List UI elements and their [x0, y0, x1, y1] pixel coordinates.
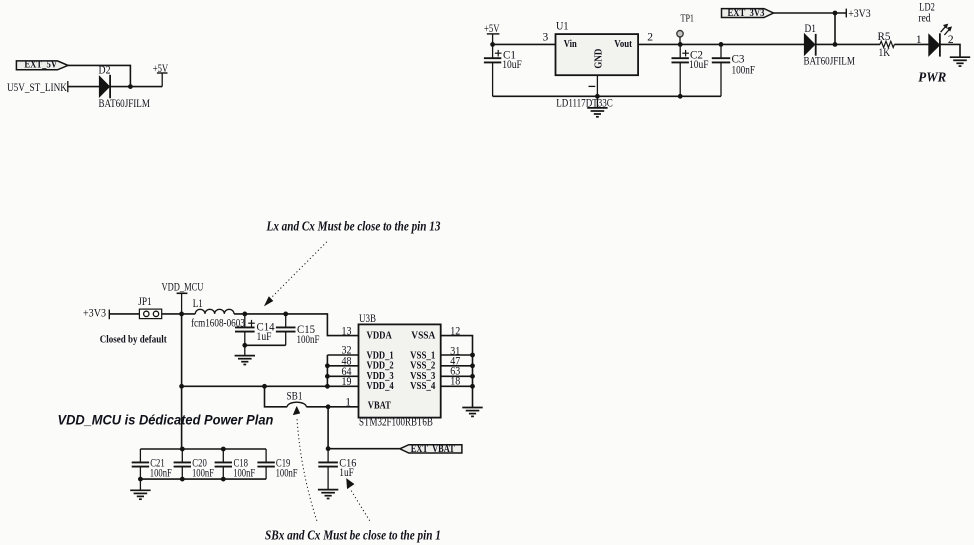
junction node VBAT net	[326, 404, 331, 409]
wire R5 to LD2	[894, 43, 929, 45]
junction node pin18	[470, 384, 475, 389]
capacitor C1	[492, 44, 494, 58]
svg-text:1uF: 1uF	[257, 330, 272, 343]
svg-text:BAT60JFILM: BAT60JFILM	[99, 98, 151, 110]
capacitor C19	[265, 449, 267, 462]
wire SB1 branch down	[265, 386, 288, 407]
wire VDD bus vertical	[326, 355, 328, 386]
capacitor C3	[720, 44, 722, 58]
svg-text:U3B: U3B	[359, 313, 376, 325]
wire EXT_5V to D2 cathode net	[68, 65, 130, 86]
junction node C20 gnd	[180, 477, 185, 482]
svg-text:10uF: 10uF	[689, 58, 708, 71]
svg-text:VSSA: VSSA	[411, 330, 436, 342]
wire D2 to +5V	[110, 86, 162, 88]
ground at U3B VSS	[462, 407, 482, 409]
wire VSS pin 12	[441, 336, 473, 408]
svg-text:100nF: 100nF	[150, 467, 172, 480]
wire JP1 to L1	[162, 313, 196, 315]
capacitor C16	[327, 449, 329, 463]
junction node C20 top	[180, 447, 185, 452]
svg-text:100nF: 100nF	[732, 63, 756, 76]
junction node 3V3 net top	[833, 11, 838, 16]
svg-text:BAT60JFILM: BAT60JFILM	[804, 55, 856, 67]
resistor R5	[816, 43, 880, 45]
wire U5V_ST_LINK to D2 anode	[68, 86, 100, 88]
svg-text:L1: L1	[193, 298, 203, 310]
svg-text:SBx and Cx Must be close to th: SBx and Cx Must be close to the pin 1	[265, 527, 441, 542]
capacitor C21	[139, 449, 141, 462]
junction node C1/+5V	[490, 42, 495, 47]
wire pin 31	[441, 354, 473, 356]
LED LD2	[929, 34, 940, 55]
junction node pin47	[470, 363, 475, 368]
diode D1	[804, 34, 814, 55]
svg-text:VDDA: VDDA	[367, 330, 393, 342]
junction node C18 gnd	[221, 477, 226, 482]
svg-text:100nF: 100nF	[276, 467, 298, 480]
svg-text:EXT_5V: EXT_5V	[24, 60, 57, 71]
svg-text:VSS_4: VSS_4	[410, 380, 435, 392]
ground under C14	[244, 345, 246, 355]
svg-text:JP1: JP1	[138, 296, 151, 308]
wire gnd rail under U1	[493, 95, 721, 97]
junction node JP1 drop on pin19 rail	[179, 384, 184, 389]
wire U1 pin2 to D1 anode	[638, 43, 805, 45]
svg-text:STM32F100RBT6B: STM32F100RBT6B	[359, 417, 433, 429]
capacitor C14	[244, 314, 246, 328]
junction node C2 gnd	[678, 94, 683, 99]
junction node C15 top	[283, 312, 288, 317]
svg-text:D1: D1	[805, 22, 816, 35]
svg-text:EXT_VBAT: EXT_VBAT	[411, 443, 455, 454]
capacitor C20	[181, 449, 183, 462]
wire SB1 to VBAT pin1	[306, 406, 358, 408]
wire pin 47	[441, 365, 473, 367]
svg-text:R5: R5	[878, 30, 891, 43]
svg-text:VDD_MCU is Dédicated Power Pla: VDD_MCU is Dédicated Power Plan	[58, 412, 274, 428]
wire VDD_MCU vertical drop	[181, 314, 183, 449]
ground under C16	[318, 489, 338, 491]
svg-text:SB1: SB1	[287, 391, 303, 403]
svg-text:1uF: 1uF	[339, 466, 354, 479]
svg-text:VBAT: VBAT	[368, 399, 391, 411]
wire EXT_3V3 to +3V3	[774, 12, 847, 14]
svg-text:red: red	[918, 12, 931, 25]
svg-text:2: 2	[647, 32, 653, 44]
svg-text:EXT_3V3: EXT_3V3	[728, 8, 765, 19]
svg-text:3: 3	[543, 32, 549, 44]
ground at LD2	[950, 56, 970, 58]
svg-text:100nF: 100nF	[233, 467, 255, 480]
svg-text:100nF: 100nF	[192, 467, 214, 480]
junction node U1 gnd	[595, 94, 600, 99]
junction node D2/EXT_5V/+5V	[128, 84, 133, 89]
net tag EXT_5V	[16, 61, 68, 70]
note dashed arrow to SB1	[297, 418, 317, 521]
junction node C16 top	[326, 446, 331, 451]
wire decoupling caps bottom rail	[140, 478, 266, 480]
junction node C14 top	[242, 312, 247, 317]
svg-text:Lx and Cx Must be close to the: Lx and Cx Must be close to the pin 13	[266, 218, 441, 233]
junction node VDD_MCU net	[179, 312, 184, 317]
wire LD2 to ground	[940, 44, 960, 57]
svg-text:+3V3: +3V3	[848, 7, 871, 20]
inductor L1	[195, 309, 234, 314]
MCU U3B body	[359, 324, 441, 417]
note dashed arrow to C16	[351, 490, 370, 521]
diode D2	[99, 76, 109, 96]
solder bridge SB1	[287, 402, 306, 407]
wire decoupling caps top rail	[140, 448, 266, 450]
junction node D1 cathode net	[833, 42, 838, 47]
svg-text:10uF: 10uF	[502, 58, 521, 71]
svg-text:100nF: 100nF	[297, 334, 320, 346]
note dashed arrow to pin13 area	[270, 242, 327, 300]
svg-text:Closed by default: Closed by default	[100, 334, 167, 346]
svg-text:VDD_MCU: VDD_MCU	[162, 281, 204, 294]
wire 3V3 vertical	[834, 13, 836, 44]
wire VBAT vertical	[327, 407, 329, 449]
wire pin 18	[441, 385, 473, 387]
junction node C14 gnd	[242, 343, 247, 348]
wire to EXT_VBAT tag	[328, 448, 400, 450]
wire +3V3 to JP1	[109, 313, 139, 315]
wire +5V to U1 pin3	[493, 43, 556, 45]
svg-text:1K: 1K	[879, 46, 891, 59]
wire L1 to U3B pin13	[234, 314, 359, 336]
svg-text:D2: D2	[99, 64, 111, 77]
junction node SB1 branch	[262, 384, 267, 389]
capacitor C2	[679, 44, 681, 58]
svg-text:GND: GND	[593, 49, 605, 69]
wire pin 32	[327, 354, 358, 356]
net tag EXT_3V3	[722, 9, 774, 18]
svg-text:13: 13	[342, 325, 352, 338]
junction node pin31	[470, 353, 475, 358]
junction node C18 top	[221, 447, 226, 452]
junction node C3 top	[719, 42, 724, 47]
wire pin 48	[327, 365, 358, 367]
jumper JP1	[139, 309, 161, 319]
regulator U1 body	[556, 34, 639, 75]
junction node pin48	[325, 363, 330, 368]
svg-text:Vin: Vin	[564, 38, 577, 50]
U1 GND pin stub + pin 1 marker	[596, 75, 598, 96]
LED light arrows	[941, 27, 946, 33]
svg-text:+5V: +5V	[153, 63, 169, 76]
ground under U1	[596, 96, 598, 108]
wire pin 63	[441, 375, 473, 377]
capacitor C15	[285, 314, 287, 328]
junction node bus bottom	[325, 384, 330, 389]
junction node C2/TP1	[678, 42, 683, 47]
junction node pin64	[325, 374, 330, 379]
svg-text:U1: U1	[556, 20, 568, 33]
junction node C21 gnd	[138, 477, 143, 482]
svg-text:+3V3: +3V3	[83, 307, 106, 320]
svg-text:TP1: TP1	[681, 14, 695, 25]
wire C15 to C14 gnd	[245, 344, 286, 346]
svg-text:VDD_4: VDD_4	[367, 380, 394, 392]
power +5V (left)	[161, 73, 163, 87]
capacitor C18	[222, 449, 224, 462]
power +3V3 (top)	[845, 9, 847, 18]
test point TP1	[677, 31, 683, 37]
svg-text:Vout: Vout	[614, 38, 632, 50]
svg-text:U5V_ST_LINK: U5V_ST_LINK	[7, 81, 67, 94]
wire pin 19 long rail	[182, 385, 359, 387]
wire pin 64	[327, 375, 358, 377]
ground under C21	[139, 479, 141, 490]
net tag EXT_VBAT	[400, 445, 462, 453]
junction node pin63	[470, 374, 475, 379]
svg-text:PWR: PWR	[918, 69, 946, 85]
svg-text:1: 1	[916, 34, 922, 46]
